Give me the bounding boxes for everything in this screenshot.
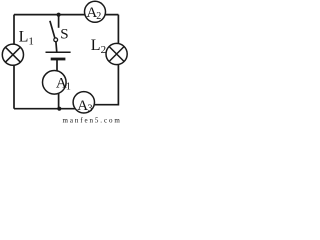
svg-text:S: S bbox=[60, 27, 68, 43]
svg-text:L: L bbox=[91, 37, 101, 54]
svg-text:2: 2 bbox=[101, 44, 107, 56]
svg-text:2: 2 bbox=[96, 11, 101, 22]
svg-text:manfen5.com: manfen5.com bbox=[63, 117, 122, 125]
svg-text:1: 1 bbox=[28, 36, 34, 48]
svg-text:L: L bbox=[19, 28, 29, 45]
svg-text:3: 3 bbox=[88, 104, 93, 115]
svg-text:1: 1 bbox=[66, 82, 71, 93]
